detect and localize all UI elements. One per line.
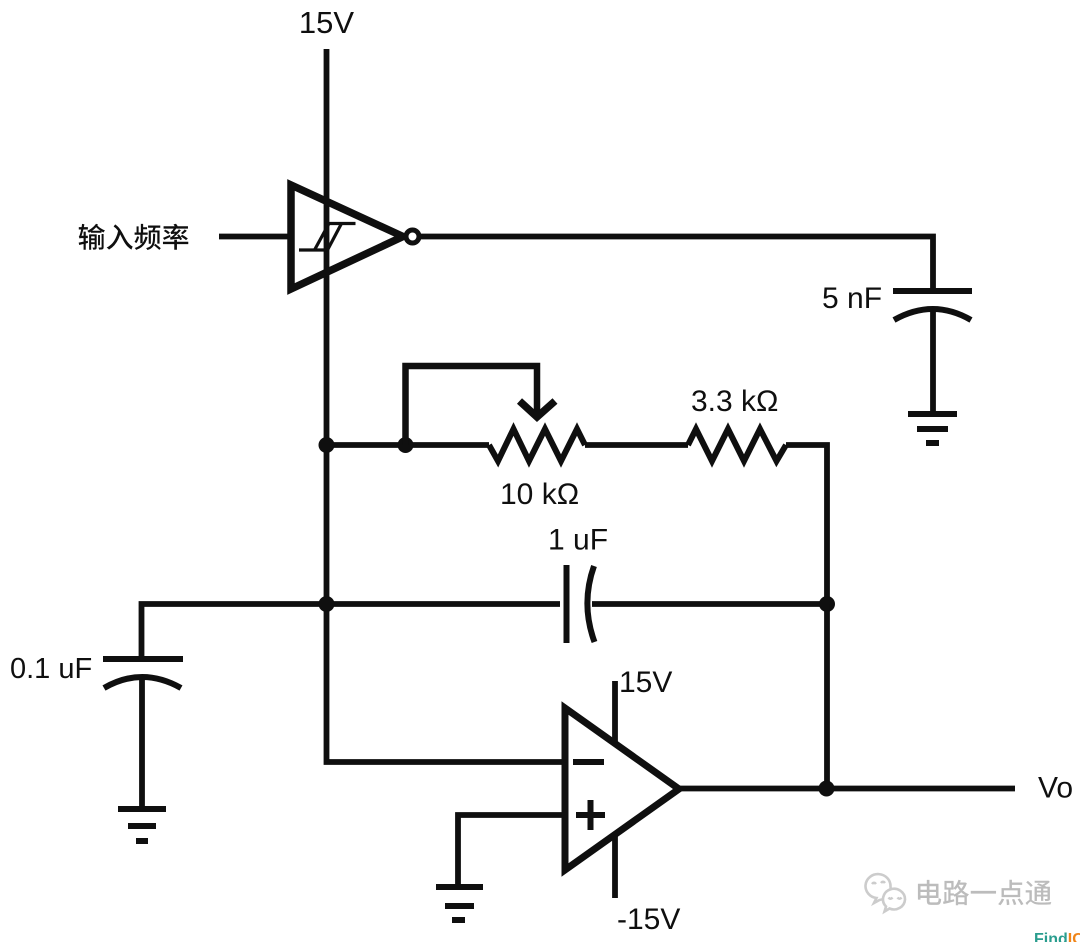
ground G3 bbox=[436, 887, 483, 920]
op-amp -supply wire bbox=[612, 834, 618, 898]
wire mid row right bbox=[592, 601, 827, 607]
junction dot node A mid bbox=[319, 596, 335, 612]
wire right rail down to output bbox=[824, 604, 830, 789]
wire 15V supply vertical bbox=[324, 49, 330, 445]
svg-text:15V: 15V bbox=[299, 5, 354, 40]
capacitor C1 5 nF bbox=[893, 291, 972, 320]
wire node row to pot bbox=[327, 442, 490, 448]
hysteresis symbol bbox=[299, 224, 356, 251]
output wire of inverter bbox=[419, 237, 933, 292]
svg-text:10 kΩ: 10 kΩ bbox=[500, 478, 579, 511]
ground G1 bbox=[908, 414, 957, 443]
plus symbol bbox=[576, 800, 605, 830]
svg-text:5 nF: 5 nF bbox=[822, 282, 882, 315]
watermark text 电路一点通 bbox=[918, 880, 1051, 905]
svg-text:3.3 kΩ: 3.3 kΩ bbox=[691, 385, 778, 418]
op-amp +supply wire bbox=[612, 681, 618, 744]
capacitor C2 1 uF bbox=[567, 565, 595, 643]
minus symbol bbox=[573, 759, 604, 765]
wire between resistors bbox=[585, 442, 688, 448]
resistor R2 3.3 k zigzag bbox=[688, 429, 786, 461]
output wire bbox=[679, 786, 1015, 792]
wire R2 to right rail bbox=[786, 445, 827, 604]
svg-text:15V: 15V bbox=[619, 666, 672, 699]
svg-text:-15V: -15V bbox=[617, 903, 680, 936]
wire C1 to ground bbox=[930, 311, 936, 414]
svg-text:1 uF: 1 uF bbox=[548, 524, 608, 557]
inverter bubble bbox=[406, 230, 419, 243]
svg-text:FindIC: FindIC bbox=[1034, 931, 1080, 942]
pot wiper arrow bbox=[520, 401, 556, 417]
capacitor C3 0.1 uF bbox=[103, 659, 183, 688]
ground G2 bbox=[118, 809, 166, 841]
wire left branch vertical (node A down) bbox=[327, 445, 566, 762]
svg-text:0.1 uF: 0.1 uF bbox=[10, 653, 92, 685]
junction node A dot bbox=[319, 437, 335, 453]
cjk glyphs input label bbox=[79, 224, 189, 250]
junction dot output bbox=[819, 781, 835, 797]
potentiometer R1 10 k zigzag bbox=[489, 429, 585, 461]
wire mid row left + 0.1uF drop bbox=[142, 604, 561, 659]
wire plus input to ground bbox=[458, 815, 565, 887]
input wire bbox=[219, 234, 289, 240]
svg-text:Vo: Vo bbox=[1038, 772, 1073, 805]
pot wiper jumper wire bbox=[406, 366, 538, 445]
junction node B dot bbox=[398, 437, 414, 453]
wire C3 to ground bbox=[139, 679, 145, 809]
watermark wechat logo bbox=[866, 874, 905, 911]
op-amp U2 bbox=[565, 708, 679, 870]
schmitt trigger inverter U1 bbox=[291, 185, 403, 289]
junction dot right rail mid bbox=[819, 596, 835, 612]
